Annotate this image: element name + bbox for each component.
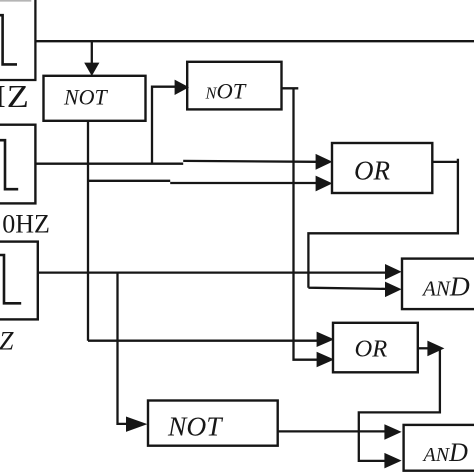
wire: NOT U2 output right stub bbox=[282, 87, 299, 89]
wire: corner feeding NOT U2 (from 10HZ line) bbox=[152, 87, 176, 164]
wire: branch down into NOT U1 bbox=[91, 41, 93, 63]
svg-text:AND: AND bbox=[422, 438, 469, 467]
svg-text:Z: Z bbox=[0, 327, 14, 356]
op box NOT U6 bbox=[148, 401, 278, 446]
op box OR U3 bbox=[332, 143, 432, 193]
svg-text:0HZ: 0HZ bbox=[2, 210, 50, 239]
wire: box3 branch down to NOT U6 bbox=[118, 273, 127, 424]
arrowhead into AND U7 upper input bbox=[384, 424, 401, 440]
pulse source box 2 (10HZ), clipped at left bbox=[0, 125, 35, 204]
op box AND U7 (clipped at right) bbox=[404, 425, 474, 471]
arrowhead into OR U4 lower input bbox=[317, 352, 335, 368]
svg-text:OR: OR bbox=[354, 156, 390, 186]
op box AND U5 (clipped at right) bbox=[402, 259, 474, 310]
wire: OR U4 output stub with arrow bbox=[418, 347, 429, 349]
wire: OR U4 output down-left-down to AND U7 lower input bbox=[359, 349, 440, 461]
pulse source box 1 (1HZ), clipped at left/top bbox=[0, 0, 37, 80]
wire: branch right to OR U3 lower input bbox=[88, 181, 316, 183]
arrowhead into AND U5 upper input bbox=[385, 264, 402, 280]
arrowhead at OR U4 output corner bbox=[427, 341, 444, 357]
pulse waveform symbol 1 bbox=[0, 15, 17, 64]
wire: box1 output to right edge bbox=[35, 40, 474, 42]
wire: box3 output to AND U5 upper input bbox=[38, 271, 386, 273]
svg-text:OR: OR bbox=[355, 336, 388, 363]
svg-text:HZ: HZ bbox=[0, 80, 30, 115]
arrowhead into NOT U2 bbox=[175, 80, 189, 95]
svg-text:NOT: NOT bbox=[205, 79, 247, 104]
pulse source box 3 (100HZ), clipped at left bbox=[0, 242, 38, 320]
pulse waveform symbol 2 bbox=[0, 140, 18, 189]
op box OR U4 bbox=[333, 323, 418, 373]
op box NOT U1 bbox=[44, 76, 146, 121]
wire: OR U3 output loop to AND U5 lower input bbox=[308, 159, 458, 289]
arrowhead into OR U3 lower input bbox=[316, 176, 333, 192]
arrowhead into NOT U1 bbox=[84, 63, 99, 76]
op box NOT U2 bbox=[187, 62, 281, 110]
arrowhead into AND U5 lower input bbox=[385, 282, 402, 298]
wire: box2 output to OR U3 upper input bbox=[35, 161, 316, 164]
svg-text:NOT: NOT bbox=[167, 411, 223, 442]
wire: NOT U1 output bottom branch to OR U4 upper input bbox=[88, 340, 317, 342]
arrowhead into OR U4 upper input bbox=[317, 332, 335, 347]
svg-text:AND: AND bbox=[421, 271, 470, 302]
wire: NOT U2 output down to OR U4 input bbox=[294, 88, 318, 359]
arrowhead into AND U7 lower input bbox=[384, 453, 401, 469]
svg-text:NOT: NOT bbox=[63, 85, 109, 110]
wire: NOT U6 output to AND U7 upper input bbox=[278, 430, 385, 432]
arrowhead into NOT U6 bbox=[126, 417, 147, 432]
pulse waveform symbol 3 bbox=[0, 255, 21, 303]
arrowhead into OR U3 upper input bbox=[316, 154, 333, 170]
wire: NOT U1 output down bbox=[87, 121, 89, 341]
